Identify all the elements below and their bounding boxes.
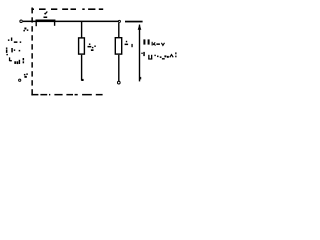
dashed enclosure top edge <box>31 8 103 10</box>
voltage reference bar <box>125 21 143 23</box>
left label line 1 (U..) <box>8 38 21 43</box>
voltage arrow bottom tick <box>140 77 141 80</box>
series impedance box Z <box>36 20 56 27</box>
label Z1 <box>88 44 96 52</box>
right label line 2 ((U ...) <box>141 52 176 60</box>
left label line 2 ((U..) <box>6 48 20 56</box>
wire: input terminal to node <box>23 21 118 23</box>
wire: node down to Z2 <box>118 23 119 38</box>
impedance box Z1 <box>79 38 85 54</box>
dashed enclosure bottom edge <box>31 94 102 96</box>
label Z2 <box>125 41 133 47</box>
label Z (series impedance) <box>44 12 48 19</box>
wire: Z1 bottom lead <box>81 55 82 81</box>
terminal circle at Z2 bottom <box>117 81 120 84</box>
wire: Z2 bottom lead <box>118 55 119 81</box>
left label line 3 (L..) <box>9 57 24 64</box>
wire: node down to Z1 <box>81 22 82 38</box>
terminal blob at Z1 bottom <box>81 79 83 81</box>
left label marks row A <box>23 28 28 32</box>
node terminal circle at top of Z2 <box>118 20 120 22</box>
impedance box Z2 <box>115 38 121 54</box>
right label line 1 (U_K-v) <box>143 39 164 45</box>
voltage arrowhead (up) <box>138 24 142 30</box>
input terminal <box>20 20 23 23</box>
left label marks row E <box>24 73 28 77</box>
voltage arrow line <box>139 25 140 82</box>
lower-left open terminal <box>19 79 21 81</box>
dashed enclosure left edge <box>31 8 33 96</box>
